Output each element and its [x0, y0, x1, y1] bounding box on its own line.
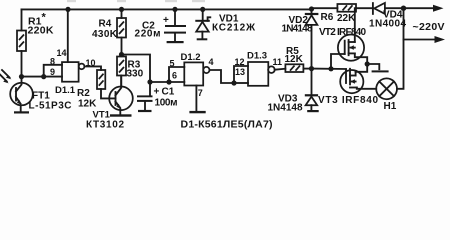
phototransistor FT1 — [10, 77, 71, 112]
op-amp U3: logic gate D1.3 — [235, 51, 283, 86]
svg-text:R4: R4 — [99, 19, 112, 30]
wire mains arrow top — [404, 5, 444, 12]
svg-text:11: 11 — [273, 57, 283, 67]
resistor R4 — [92, 9, 126, 54]
lamp H1 — [376, 78, 397, 112]
svg-text:12K: 12K — [78, 99, 97, 110]
svg-text:100м: 100м — [155, 98, 178, 109]
resistor R1 — [17, 9, 54, 76]
svg-text:1N4148: 1N4148 — [268, 102, 303, 113]
svg-text:430K: 430K — [92, 29, 118, 40]
svg-text:220K: 220K — [28, 25, 54, 37]
node C: C1 / gate input rail — [147, 67, 184, 85]
svg-text:8: 8 — [50, 56, 55, 66]
svg-text:D1.3: D1.3 — [247, 51, 267, 62]
svg-text:R2: R2 — [77, 88, 90, 99]
svg-text:12: 12 — [235, 57, 245, 67]
transistor VT1 — [86, 76, 133, 131]
node rail dot C2 — [172, 7, 177, 12]
ground (VD3) — [307, 110, 319, 112]
wire branch to C1 node — [122, 55, 151, 83]
node A: R1/FT1 junction and wire to D1.1 — [19, 65, 62, 79]
resistor R6 — [321, 4, 357, 24]
resistor R5 — [285, 46, 312, 72]
svg-text:КТ3102: КТ3102 — [86, 120, 124, 131]
svg-text:H1: H1 — [384, 101, 397, 112]
svg-text:14: 14 — [57, 48, 67, 58]
wire D1.2 output to D1.3 inputs — [210, 66, 249, 86]
svg-text:5: 5 — [170, 59, 175, 69]
diode VD3 — [268, 69, 319, 114]
capacitor C1 — [137, 82, 178, 110]
svg-text:D1.1: D1.1 — [55, 85, 76, 96]
svg-text:9: 9 — [50, 67, 55, 77]
ground (mains side) — [372, 70, 389, 72]
svg-text:13: 13 — [235, 67, 245, 77]
zener diode VD1 — [195, 9, 256, 38]
ground (VT1) — [110, 114, 132, 116]
transistor VT3 — [318, 69, 378, 106]
wire mains arrow bottom — [404, 36, 446, 43]
svg-text:7: 7 — [198, 88, 203, 98]
svg-text:12K: 12K — [285, 54, 304, 65]
wire pin 14 — [67, 9, 69, 62]
wire D1.3 output to R5 — [275, 69, 286, 70]
node B: R4/R3 junction — [119, 52, 124, 57]
ground (FT1) — [14, 111, 29, 113]
diode VD2 — [282, 6, 319, 68]
wire pin 7 to ground — [195, 86, 197, 111]
wire top rail left — [22, 8, 312, 10]
ground (pin 7) — [189, 111, 205, 113]
op-amp U2: logic gate D1.2 — [170, 52, 214, 86]
svg-text:VT2 IRF840: VT2 IRF840 — [319, 27, 366, 38]
capacitor C2 — [135, 9, 187, 41]
node rail dot pin14 — [65, 7, 70, 12]
resistor R3 — [117, 57, 144, 87]
svg-text:4: 4 — [209, 57, 214, 67]
svg-text:1N4004: 1N4004 — [369, 18, 406, 29]
node D: gate bus / VD2 / VD3 junction — [309, 66, 314, 71]
resistor R2 — [77, 70, 116, 110]
faint page-text fragments at top edge — [67, 0, 205, 2]
svg-text:VT3 IRF840: VT3 IRF840 — [318, 95, 378, 106]
svg-text:220м: 220м — [135, 28, 161, 39]
wire D1.1 output to R2 — [84, 66, 101, 70]
node F: common sources — [365, 61, 370, 66]
svg-text:D1.2: D1.2 — [181, 52, 201, 63]
wire mains vertical to lamp — [397, 8, 404, 89]
wire rail R6 to VD4 — [356, 7, 373, 9]
svg-text:1N4148: 1N4148 — [282, 24, 313, 35]
svg-text:+: + — [163, 15, 169, 26]
op-amp U1: logic gate D1.1 — [50, 56, 96, 96]
svg-text:+: + — [154, 87, 160, 98]
svg-text:*: * — [42, 12, 47, 24]
svg-text:6: 6 — [172, 71, 177, 81]
light arrows into FT1 — [0, 70, 11, 83]
diode VD4 — [369, 3, 406, 29]
wire source tie to VT3 — [356, 64, 368, 72]
wire top rail right (to R6) — [312, 7, 338, 9]
svg-text:D1-К561ЛЕ5(ЛА7): D1-К561ЛЕ5(ЛА7) — [181, 118, 273, 130]
node rail dot VD1 — [200, 7, 205, 12]
ground (C1) — [138, 110, 152, 112]
svg-text:22K: 22K — [337, 13, 356, 24]
node G: mains junction — [401, 6, 406, 11]
node rail dot R4 — [119, 7, 124, 12]
transistor VT2 — [319, 8, 367, 69]
svg-text:~220V: ~220V — [413, 21, 445, 33]
svg-text:КС212Ж: КС212Ж — [212, 23, 256, 34]
svg-text:L-51P3C: L-51P3C — [29, 101, 72, 112]
wire rail VD4 to mains node — [385, 7, 404, 9]
ground (C2) — [167, 41, 184, 43]
svg-text:330: 330 — [127, 69, 144, 80]
svg-text:R6: R6 — [321, 12, 334, 23]
svg-text:C1: C1 — [162, 87, 175, 98]
ground (VD1) — [197, 38, 208, 40]
node E: VT2 gate branch — [328, 66, 333, 71]
wire gate bus — [312, 68, 347, 70]
wire to mains-side ground — [367, 64, 379, 69]
